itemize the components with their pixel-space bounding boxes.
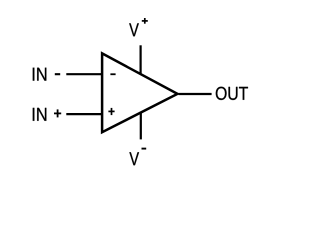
- non-inverting input marker + inside body: [108, 108, 114, 115]
- inverting input marker - inside body: [110, 73, 115, 75]
- wire IN- lead: [66, 73, 102, 75]
- wire V+ supply stub: [140, 45, 142, 74]
- minus sign after IN: [55, 73, 60, 75]
- wire V- supply stub: [140, 112, 142, 140]
- wire OUT lead: [179, 93, 212, 95]
- plus sign after IN: [54, 109, 61, 117]
- label IN (inverting input): [33, 68, 47, 81]
- superscript minus of V-: [142, 148, 147, 150]
- label IN (non-inverting input): [33, 108, 47, 121]
- wire IN+ lead: [66, 113, 102, 115]
- label V (negative supply): [129, 152, 139, 165]
- label OUT: [216, 87, 248, 100]
- op-amp U1 triangle body: [102, 53, 177, 132]
- label V (positive supply): [129, 23, 139, 36]
- superscript plus of V+: [142, 18, 148, 24]
